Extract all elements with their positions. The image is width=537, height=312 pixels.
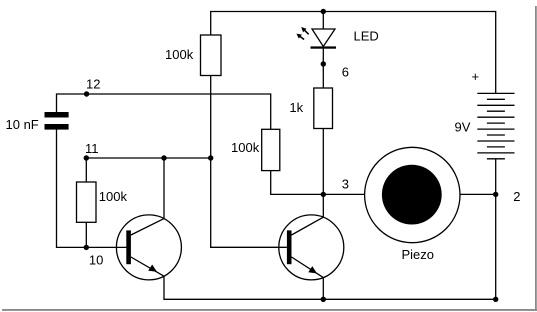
svg-text:100k: 100k bbox=[231, 140, 260, 155]
svg-text:100k: 100k bbox=[99, 189, 128, 204]
svg-text:11: 11 bbox=[85, 141, 99, 156]
svg-text:3: 3 bbox=[342, 176, 349, 191]
svg-text:Piezo: Piezo bbox=[402, 247, 435, 262]
svg-text:10 nF: 10 nF bbox=[6, 117, 39, 132]
svg-text:9V: 9V bbox=[455, 119, 471, 134]
svg-text:LED: LED bbox=[354, 29, 379, 44]
svg-text:12: 12 bbox=[86, 76, 100, 91]
svg-text:6: 6 bbox=[342, 65, 349, 80]
svg-text:2: 2 bbox=[513, 189, 520, 204]
svg-text:100k: 100k bbox=[165, 47, 194, 62]
svg-text:1k: 1k bbox=[289, 100, 303, 115]
svg-text:10: 10 bbox=[89, 253, 103, 268]
svg-text:+: + bbox=[472, 69, 480, 84]
